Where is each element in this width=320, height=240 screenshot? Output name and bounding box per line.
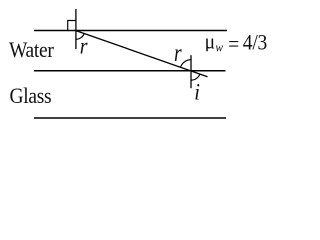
angle arc i bottom	[191, 74, 200, 80]
svg-text:r: r	[80, 33, 88, 59]
angle arc r bottom	[181, 60, 191, 67]
svg-text:w: w	[215, 40, 223, 55]
angle arc r top	[76, 34, 84, 40]
svg-text:4/3: 4/3	[243, 29, 267, 55]
right-angle marker	[68, 21, 76, 31]
svg-text:=: =	[228, 31, 239, 57]
svg-text:r: r	[174, 39, 182, 67]
air-water surface line	[34, 30, 227, 32]
svg-text:Glass: Glass	[10, 83, 52, 109]
water-glass surface line	[34, 70, 226, 72]
svg-text:μ: μ	[205, 28, 215, 54]
normal at bottom interface	[190, 55, 192, 88]
svg-text:i: i	[194, 78, 200, 105]
svg-text:Water: Water	[9, 37, 54, 63]
glass bottom boundary line	[34, 117, 226, 119]
refracted ray in water	[76, 31, 208, 77]
normal at top interface	[75, 9, 77, 49]
